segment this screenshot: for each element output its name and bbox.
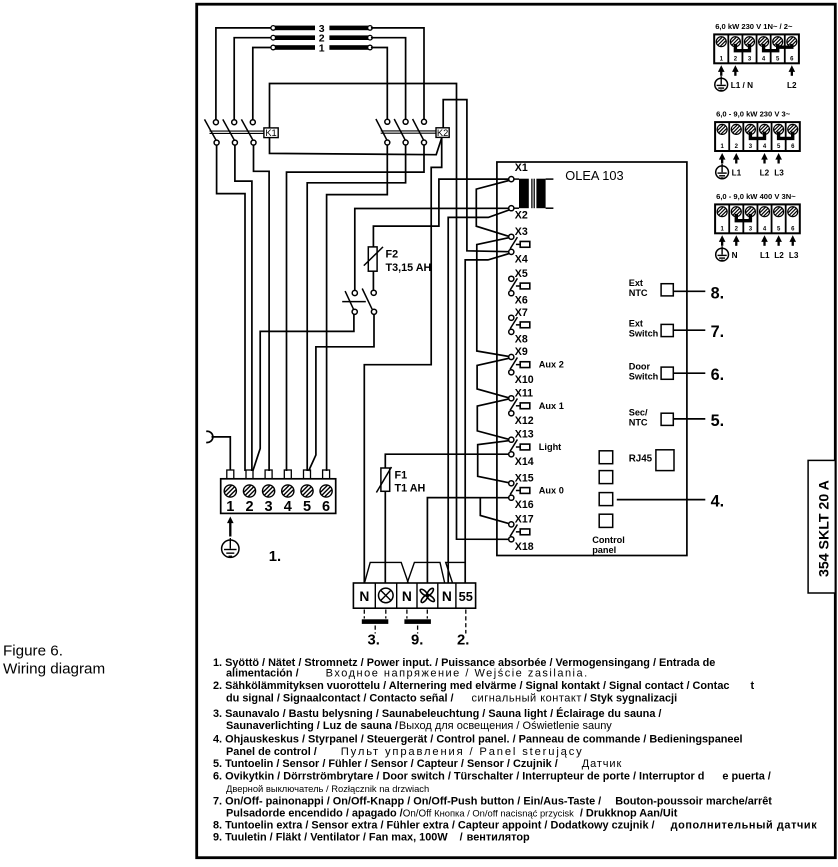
svg-text:Aux 2: Aux 2 (539, 360, 564, 370)
supply arrow 5 (775, 153, 782, 164)
wire K1 pole3 to terminal 3 (254, 145, 270, 471)
bridge bar 5-6 (779, 132, 793, 139)
marker fan cable (404, 610, 431, 634)
relay contact X15-X16 (510, 483, 530, 495)
protective earth symbol (222, 538, 239, 557)
terminal screw 6 (320, 485, 332, 497)
relay contact X7-X8 (510, 317, 530, 329)
svg-text:X8: X8 (515, 333, 528, 345)
svg-text:X14: X14 (515, 456, 534, 468)
svg-text:F2: F2 (386, 249, 399, 261)
terminal X4 (509, 249, 528, 265)
config screw 4 (760, 207, 770, 217)
terminal screw 4 (282, 485, 294, 497)
terminal pin 1 (227, 470, 234, 479)
supply arrow 4 (761, 153, 768, 164)
relay contact X13-X14 (510, 440, 530, 452)
svg-text:5: 5 (303, 499, 311, 515)
svg-text:Switch: Switch (629, 371, 659, 381)
relay contact X17-X18 (510, 525, 530, 537)
svg-text:4.: 4. (711, 493, 725, 511)
earth symbol (716, 164, 729, 179)
svg-text:X5: X5 (515, 268, 528, 280)
svg-text:2. Sähkölämmityksen vuorottelu: 2. Sähkölämmityksen vuorottelu / Alterne… (213, 680, 754, 692)
wire control panel to callout 4. (617, 499, 706, 501)
svg-text:354: 354 (817, 553, 833, 577)
svg-text:9.: 9. (411, 633, 423, 649)
svg-text:6: 6 (322, 499, 330, 515)
connector Door Switch (629, 361, 674, 381)
config screw 6 (787, 37, 797, 47)
wire X1 to fuse F2 (373, 179, 508, 247)
heating element group 3 left bar (271, 26, 315, 31)
svg-text:X12: X12 (515, 415, 534, 427)
svg-text:Light: Light (539, 442, 561, 452)
marker signal cable (465, 610, 467, 634)
svg-text:L1: L1 (760, 251, 770, 260)
svg-text:Wiring diagram: Wiring diagram (3, 661, 105, 678)
terminal pin 5 (304, 470, 311, 479)
config screw 1 (717, 207, 727, 217)
terminal screw 1 (224, 485, 236, 497)
svg-text:N: N (732, 251, 738, 260)
svg-text:7. On/Off- painonappi / On/Off: 7. On/Off- painonappi / On/Off-Knapp / O… (213, 795, 772, 807)
terminal X5 (509, 268, 528, 282)
relay contact X11-X12 (510, 399, 530, 411)
wire Ext Switch to callout 7. (673, 329, 705, 331)
wire X2 branch to connector N (448, 210, 509, 583)
svg-text:4. Ohjauskeskus / Styrpanel /: 4. Ohjauskeskus / Styrpanel / Steuergerä… (213, 733, 743, 745)
svg-text:Saunaverlichting / Luz de saun: Saunaverlichting / Luz de sauna /Выход д… (226, 720, 612, 732)
wire X13 chain to X15 (478, 441, 509, 483)
wire K1 coil top feed and bus to X18 (270, 84, 509, 540)
wire K1 pole2 to terminal 2 (235, 145, 252, 471)
terminal screw 2 (243, 485, 255, 497)
terminal X18 (509, 537, 534, 553)
svg-text:L3: L3 (774, 169, 784, 178)
wire X3 chain to X9 (477, 238, 510, 357)
fuse F2 (364, 247, 383, 271)
svg-text:OLEA 103: OLEA 103 (565, 168, 623, 183)
marker lamp cable (362, 610, 389, 634)
contactor K1 linkage (210, 131, 264, 133)
configuration terminal block 6,0 - 9,0 kW 230 V 3~ (715, 122, 800, 151)
wire K2 coil bottom to connector N (364, 138, 441, 583)
connector Ext NTC (629, 278, 674, 298)
config screw 1 (716, 37, 726, 47)
svg-text:L2: L2 (787, 81, 797, 90)
svg-text:Ext: Ext (629, 319, 643, 329)
svg-text:X13: X13 (515, 429, 534, 441)
config screw 5 (773, 37, 783, 47)
svg-text:Дверной выключатель / Rozłączn: Дверной выключатель / Rozłącznik na drzw… (226, 783, 429, 794)
terminal X8 (509, 329, 528, 345)
terminal screw 5 (301, 485, 313, 497)
wire switch left pole to terminal 2 (253, 314, 354, 471)
terminal X7 (509, 307, 528, 321)
svg-text:N: N (359, 589, 369, 604)
relay contact X3-X4 (510, 237, 530, 249)
relay contact X5-X6 (510, 278, 530, 290)
config screw 5 (774, 207, 784, 217)
type label box 354 SKLT 20 A (808, 460, 835, 593)
earth symbol (716, 246, 729, 261)
wire bar3 right to K2 pole3 (371, 28, 424, 119)
svg-text:Ext: Ext (629, 278, 643, 288)
terminal X13 (509, 429, 534, 443)
terminal X2 (509, 206, 528, 222)
svg-text:K1: K1 (265, 128, 276, 138)
fuse F1 value label (395, 470, 426, 495)
supply arrow 2 (733, 153, 740, 164)
svg-text:9. Tuuletin / Fläkt / Ventila: 9. Tuuletin / Fläkt / Ventilator / Fan m… (213, 832, 530, 844)
svg-text:L1 / N: L1 / N (731, 81, 753, 90)
lamp symbol (379, 588, 394, 603)
wire bar1 left to K1 pole3 (253, 48, 271, 120)
terminal screw 3 (263, 485, 275, 497)
connector RJ45 (629, 450, 674, 471)
wire Door Switch to callout 6. (673, 372, 705, 374)
supply arrow 2 (732, 65, 739, 76)
earth arrow (227, 517, 234, 537)
earth symbol (715, 76, 728, 91)
wire X4 lower branch to terminal 55 (465, 254, 509, 583)
svg-text:1.: 1. (269, 549, 281, 565)
svg-text:X4: X4 (515, 253, 528, 265)
svg-text:T1 AH: T1 AH (395, 483, 426, 495)
main switch S1 contacts (342, 289, 376, 315)
connector Sec/ NTC (629, 408, 674, 428)
wire fuse F2 to switch (372, 271, 374, 290)
svg-text:Switch: Switch (629, 329, 659, 339)
config screw 5 (774, 124, 784, 134)
config screw 4 (760, 124, 770, 134)
figure caption (3, 643, 105, 678)
svg-text:Sec/: Sec/ (629, 408, 648, 418)
cable funnel fan (407, 562, 444, 582)
supply arrow 4 (761, 235, 768, 246)
svg-text:Panel de control /Пульт управл: Panel de control /Пульт управления / Pan… (226, 746, 584, 758)
bridge bar 2-3 (735, 44, 749, 51)
config screw 3 (745, 207, 755, 217)
bridge bar 4-5 (764, 44, 778, 51)
output connector block (353, 583, 475, 608)
diagram frame border (197, 4, 836, 858)
terminal pin 3 (265, 470, 272, 479)
wire X1 chain to X3 (476, 181, 509, 237)
contactor K1 contacts (205, 119, 257, 145)
terminal X12 (509, 411, 534, 427)
config screw 2 (731, 124, 741, 134)
svg-text:X16: X16 (515, 499, 534, 511)
svg-text:L2: L2 (760, 169, 770, 178)
svg-text:alimentación /Входное напряжен: alimentación /Входное напряжение / Wejśc… (226, 668, 589, 680)
supply arrow 6 (789, 65, 796, 76)
transformer T1 (514, 179, 554, 209)
wire switch to X2 (355, 208, 509, 290)
supply arrow 5 (775, 235, 782, 246)
config screw 3 (744, 37, 754, 47)
contactor K1 coil box (264, 128, 278, 138)
fan symbol (419, 587, 435, 603)
svg-text:NTC: NTC (629, 288, 648, 298)
svg-text:X10: X10 (515, 374, 534, 386)
wire cable entry to terminal 1 (212, 437, 231, 470)
wire fuse F1 to lamp connector (384, 491, 386, 583)
control panel connector pins (599, 451, 613, 528)
svg-text:6. Ovikytkin / Dörrströmbrytar: 6. Ovikytkin / Dörrströmbrytare / Door s… (213, 771, 771, 783)
svg-text:T3,15 AH: T3,15 AH (386, 262, 432, 274)
svg-text:Pulsadorde encendido / apagado: Pulsadorde encendido / apagado /On/Off К… (226, 807, 678, 819)
terminal X9 (509, 346, 528, 360)
bridge bar 5-6 (778, 44, 792, 47)
heating element group 2 left bar (271, 35, 315, 40)
terminal X3 (509, 226, 528, 240)
svg-text:X9: X9 (515, 346, 528, 358)
svg-text:N: N (402, 589, 412, 604)
wire bar2 right to K2 pole2 (371, 38, 406, 120)
cable funnel lamp (365, 562, 409, 582)
svg-text:F1: F1 (395, 470, 408, 482)
svg-text:1: 1 (226, 499, 234, 515)
svg-text:5.: 5. (711, 412, 725, 430)
svg-text:Door: Door (629, 361, 651, 371)
svg-text:X18: X18 (515, 541, 534, 553)
terminal X6 (509, 291, 528, 307)
svg-text:3.: 3. (368, 633, 380, 649)
svg-text:6,0 kW 230 V 1N~ / 2~: 6,0 kW 230 V 1N~ / 2~ (715, 22, 793, 31)
heating element group 1 right bar (329, 45, 372, 50)
svg-text:NTC: NTC (629, 418, 648, 428)
config screw 6 (788, 207, 798, 217)
svg-text:X15: X15 (515, 472, 534, 484)
wire K2 pole3 to terminal 4 (287, 145, 425, 471)
terminal X15 (509, 472, 534, 486)
supply terminal block (221, 479, 336, 514)
cable funnel N (446, 562, 466, 582)
wire K1 pole1 to terminal 2 (217, 145, 245, 471)
fuse F1 (376, 467, 391, 493)
terminal X11 (509, 387, 533, 401)
svg-text:3: 3 (265, 499, 273, 515)
svg-text:X3: X3 (515, 226, 528, 238)
svg-text:2: 2 (245, 499, 253, 515)
svg-text:X2: X2 (515, 210, 528, 222)
svg-text:6,0 - 9,0 kW 230 V 3~: 6,0 - 9,0 kW 230 V 3~ (716, 110, 791, 119)
svg-text:K2: K2 (437, 128, 448, 138)
wire X11 chain to X13 (477, 399, 508, 439)
wire K2 pole2 to terminal 5 (307, 145, 405, 471)
configuration terminal block 6,0 kW 230 V 1N~ / 2~ (714, 34, 799, 63)
config screw 3 (745, 124, 755, 134)
wire K2 coil top bridge (443, 100, 509, 252)
terminal X10 (509, 370, 534, 386)
svg-text:X6: X6 (515, 295, 528, 307)
svg-text:Figure 6.: Figure 6. (3, 643, 63, 660)
wire bar1 right to K2 pole1 (371, 48, 387, 120)
svg-text:55: 55 (459, 589, 473, 604)
config screw 4 (759, 37, 769, 47)
config screw 2 (731, 207, 741, 217)
svg-text:3. Saunavalo / Bastu belysning: 3. Saunavalo / Bastu belysning / Saunabe… (213, 707, 661, 720)
bridge bar 3-4 (750, 132, 764, 139)
wire switch right pole to terminal 5 (309, 314, 374, 471)
supply arrow 1 (719, 235, 726, 246)
svg-text:7.: 7. (711, 323, 725, 341)
terminal pin 2 (246, 470, 253, 479)
legend text block (213, 657, 817, 844)
svg-text:L2: L2 (774, 251, 784, 260)
connector Ext Switch (629, 319, 674, 339)
svg-text:L3: L3 (789, 251, 799, 260)
svg-text:RJ45: RJ45 (629, 454, 653, 465)
wire X9 chain to X11 (477, 358, 510, 398)
svg-text:X11: X11 (515, 387, 533, 399)
config screw 6 (788, 124, 798, 134)
heating element group 3 right bar (329, 26, 372, 31)
wire Sec/ NTC to callout 5. (673, 418, 705, 420)
supply arrow 1 (719, 153, 726, 164)
svg-text:L1: L1 (732, 169, 742, 178)
fuse F2 value label (386, 249, 432, 274)
wire X16 to fan connector (427, 498, 508, 583)
terminal X16 (509, 495, 534, 511)
svg-text:8.: 8. (711, 284, 725, 302)
control panel label (592, 535, 625, 555)
config screw 1 (717, 124, 727, 134)
svg-text:X17: X17 (515, 513, 534, 525)
supply arrow 1 (718, 65, 725, 76)
wire K1 coil bottom to K2 coil bottom (270, 138, 442, 155)
svg-text:Aux 0: Aux 0 (539, 486, 564, 496)
config screw 2 (730, 37, 740, 47)
svg-text:2.: 2. (457, 633, 469, 649)
svg-text:4: 4 (284, 499, 292, 515)
wire K2 pole1 to terminal 6 (327, 145, 388, 471)
svg-text:SKLT 20 A: SKLT 20 A (817, 480, 833, 549)
supply arrow 2 (733, 235, 740, 246)
configuration terminal block 6,0 - 9,0 kW 400 V 3N~ (715, 204, 800, 233)
cable entry symbol (206, 431, 213, 442)
terminal X1 (509, 162, 528, 182)
svg-text:6,0 - 9,0 kW 400 V 3N~: 6,0 - 9,0 kW 400 V 3N~ (716, 192, 796, 201)
terminal pin 4 (284, 470, 291, 479)
wire X14 to fuse F1 (385, 454, 508, 468)
terminal X17 (509, 513, 534, 527)
terminal pin 6 (323, 470, 330, 479)
svg-text:6.: 6. (711, 366, 725, 384)
bridge bar 2-3 (736, 214, 750, 221)
svg-text:N: N (442, 589, 452, 604)
contactor K2 linkage (381, 131, 436, 133)
heating element group 2 right bar (329, 35, 372, 40)
controller OLEA 103 box (497, 162, 687, 556)
svg-text:8. Tuntoelin extra / Sensor ex: 8. Tuntoelin extra / Sensor extra / Fühl… (213, 820, 817, 832)
svg-text:X1: X1 (515, 162, 528, 174)
svg-text:panel: panel (592, 545, 616, 555)
wire X16 branch to X17 (480, 498, 509, 524)
svg-text:du signal / Signaalcontact / C: du signal / Signaalcontact / Contacto se… (226, 693, 677, 705)
terminal X14 (509, 452, 534, 468)
heating element group 1 left bar (271, 45, 315, 50)
wire bar2 left to K1 pole2 (234, 38, 271, 120)
contactor K2 coil box (436, 128, 449, 138)
svg-text:Control: Control (592, 535, 625, 545)
wire bar3 left to K1 pole1 (216, 28, 271, 120)
contactor K2 contacts (376, 119, 427, 145)
supply arrow 6 (789, 235, 796, 246)
wire Ext NTC to callout 8. (673, 290, 705, 292)
svg-text:Aux 1: Aux 1 (539, 401, 564, 411)
relay contact X9-X10 (510, 358, 530, 370)
svg-text:1: 1 (319, 43, 325, 55)
